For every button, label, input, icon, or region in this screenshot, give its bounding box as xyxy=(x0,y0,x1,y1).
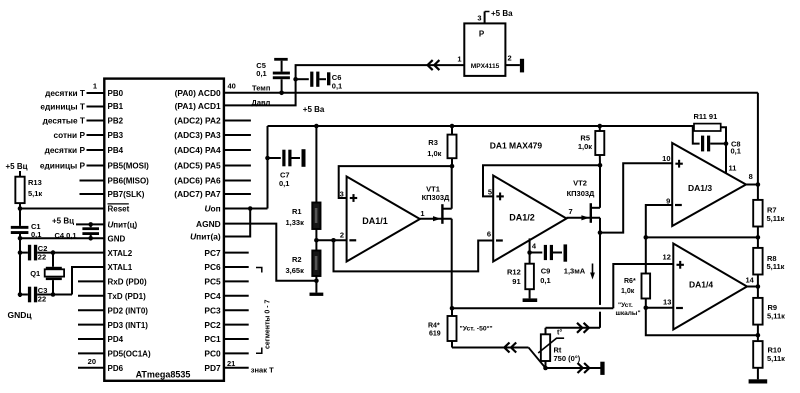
svg-text:13: 13 xyxy=(663,298,671,307)
svg-text:XTAL1: XTAL1 xyxy=(108,263,133,272)
svg-text:сотни Р: сотни Р xyxy=(54,130,86,140)
svg-text:(PA0) ACD0: (PA0) ACD0 xyxy=(175,88,221,98)
svg-text:(ADC6) PA6: (ADC6) PA6 xyxy=(174,176,221,186)
svg-text:(ADC5) PA5: (ADC5) PA5 xyxy=(174,161,221,171)
svg-text:(ADC3) PA3: (ADC3) PA3 xyxy=(174,130,221,140)
svg-text:1,33к: 1,33к xyxy=(286,218,305,227)
svg-text:21: 21 xyxy=(227,359,235,368)
svg-text:шкалы": шкалы" xyxy=(616,310,641,317)
svg-text:TxD (PD1): TxD (PD1) xyxy=(108,292,147,301)
svg-text:PC5: PC5 xyxy=(204,277,221,287)
svg-text:DA1/3: DA1/3 xyxy=(688,183,712,193)
svg-text:MPX4115: MPX4115 xyxy=(471,63,500,70)
svg-text:+5 Вц: +5 Вц xyxy=(6,162,28,171)
svg-text:1,0к: 1,0к xyxy=(621,288,635,295)
svg-text:R6*: R6* xyxy=(624,278,636,285)
svg-text:+5 Ва: +5 Ва xyxy=(303,105,325,114)
svg-text:GNDц: GNDц xyxy=(8,310,33,320)
svg-text:PC3: PC3 xyxy=(204,305,221,315)
svg-text:единицы Т: единицы Т xyxy=(40,102,85,112)
svg-text:PD2 (INT0): PD2 (INT0) xyxy=(108,306,149,315)
svg-text:0,1: 0,1 xyxy=(540,276,550,285)
svg-text:12: 12 xyxy=(663,253,671,262)
svg-text:PB6(MISO): PB6(MISO) xyxy=(108,177,150,186)
svg-text:Uоп: Uоп xyxy=(204,204,220,214)
svg-text:PC0: PC0 xyxy=(204,349,221,359)
svg-text:6: 6 xyxy=(487,229,491,238)
svg-text:PB4: PB4 xyxy=(108,146,124,155)
svg-text:0,1: 0,1 xyxy=(731,147,741,156)
svg-text:14: 14 xyxy=(745,276,754,285)
svg-text:"Уст. -50°": "Уст. -50°" xyxy=(460,325,493,333)
svg-text:ATmega8535: ATmega8535 xyxy=(136,370,191,380)
svg-text:PB2: PB2 xyxy=(108,117,124,126)
svg-text:C3: C3 xyxy=(38,286,48,295)
svg-text:R2: R2 xyxy=(292,255,302,264)
svg-text:3: 3 xyxy=(477,14,481,23)
svg-text:+5 Вц: +5 Вц xyxy=(52,217,74,226)
svg-text:P: P xyxy=(479,29,485,38)
svg-text:Uпит(а): Uпит(а) xyxy=(190,232,221,242)
svg-text:PC7: PC7 xyxy=(204,248,221,258)
svg-text:(PA1) ACD1: (PA1) ACD1 xyxy=(175,101,221,111)
svg-text:КП303Д: КП303Д xyxy=(567,189,595,198)
svg-text:40: 40 xyxy=(228,81,236,90)
svg-text:5: 5 xyxy=(488,187,492,196)
svg-text:8: 8 xyxy=(749,172,753,181)
svg-text:R13: R13 xyxy=(28,178,42,187)
svg-text:5,1к: 5,1к xyxy=(28,189,42,198)
svg-text:1,0к: 1,0к xyxy=(578,142,592,151)
svg-text:1,0к: 1,0к xyxy=(427,149,441,158)
svg-text:КП303Д: КП303Д xyxy=(422,193,450,202)
svg-text:20: 20 xyxy=(88,357,96,366)
svg-text:0,1: 0,1 xyxy=(332,82,342,91)
svg-text:VT2: VT2 xyxy=(573,179,587,188)
svg-text:PB1: PB1 xyxy=(108,102,124,111)
svg-text:11: 11 xyxy=(729,164,737,173)
svg-text:1,3мА: 1,3мА xyxy=(564,266,586,275)
svg-text:1: 1 xyxy=(420,209,424,218)
svg-text:C9: C9 xyxy=(541,267,551,276)
svg-text:PD3 (INT1): PD3 (INT1) xyxy=(108,321,149,330)
svg-text:Reset: Reset xyxy=(108,205,130,214)
svg-text:Давл: Давл xyxy=(252,98,271,107)
svg-text:22: 22 xyxy=(38,295,46,304)
svg-text:1: 1 xyxy=(457,55,461,64)
svg-text:GND: GND xyxy=(108,235,126,244)
svg-text:22: 22 xyxy=(38,253,46,262)
svg-text:DA1 MAX479: DA1 MAX479 xyxy=(490,140,543,150)
svg-text:R11 91: R11 91 xyxy=(694,112,718,121)
svg-text:5,11к: 5,11к xyxy=(767,312,785,321)
svg-text:PB3: PB3 xyxy=(108,131,124,140)
svg-text:DA1/1: DA1/1 xyxy=(362,216,388,226)
svg-text:(ADC7) PA7: (ADC7) PA7 xyxy=(174,189,221,199)
svg-text:1: 1 xyxy=(93,82,97,91)
svg-text:750 (0°): 750 (0°) xyxy=(554,354,581,363)
svg-text:единицы Р: единицы Р xyxy=(40,161,86,171)
svg-text:PC1: PC1 xyxy=(204,334,221,344)
svg-text:C4 0,1: C4 0,1 xyxy=(55,231,77,240)
svg-text:десятки Р: десятки Р xyxy=(45,145,86,155)
svg-text:Uпит(ц): Uпит(ц) xyxy=(108,221,138,230)
svg-text:PB7(SLK): PB7(SLK) xyxy=(108,190,145,199)
svg-text:R1: R1 xyxy=(292,207,302,216)
svg-text:10: 10 xyxy=(662,154,670,163)
svg-text:XTAL2: XTAL2 xyxy=(108,249,133,258)
svg-text:0,1: 0,1 xyxy=(256,69,266,78)
svg-text:PD4: PD4 xyxy=(108,335,124,344)
svg-text:десятые Т: десятые Т xyxy=(43,116,85,126)
svg-text:десятки Т: десятки Т xyxy=(45,88,85,98)
svg-text:7: 7 xyxy=(569,207,573,216)
svg-text:5,11к: 5,11к xyxy=(767,354,785,363)
svg-text:PD6: PD6 xyxy=(108,364,124,373)
svg-text:+5 Ва: +5 Ва xyxy=(491,9,513,18)
svg-text:DA1/2: DA1/2 xyxy=(509,213,535,223)
svg-text:"Уст.: "Уст. xyxy=(618,302,633,309)
svg-text:Q1: Q1 xyxy=(30,269,40,278)
svg-text:R3: R3 xyxy=(428,138,438,147)
svg-text:2: 2 xyxy=(340,231,344,240)
svg-text:PC6: PC6 xyxy=(204,262,221,272)
svg-text:619: 619 xyxy=(429,330,441,337)
svg-text:t°: t° xyxy=(557,329,562,337)
svg-text:DA1/4: DA1/4 xyxy=(689,279,713,289)
svg-text:(ADC4) PA4: (ADC4) PA4 xyxy=(174,145,221,155)
svg-text:0,1: 0,1 xyxy=(279,179,289,188)
svg-text:PC2: PC2 xyxy=(204,320,221,330)
svg-text:PB0: PB0 xyxy=(108,89,124,98)
svg-text:R4*: R4* xyxy=(428,323,440,330)
svg-text:2: 2 xyxy=(508,53,512,62)
svg-text:R12: R12 xyxy=(507,268,521,277)
svg-text:PD5(OC1A): PD5(OC1A) xyxy=(108,350,151,359)
svg-text:RxD (PD0): RxD (PD0) xyxy=(108,278,147,287)
svg-text:PC4: PC4 xyxy=(204,291,221,301)
svg-text:AGND: AGND xyxy=(196,219,221,229)
svg-text:сегменты 0 - 7: сегменты 0 - 7 xyxy=(265,300,272,349)
svg-text:PB5(MOSI): PB5(MOSI) xyxy=(108,162,150,171)
svg-text:5,11к: 5,11к xyxy=(767,262,785,271)
svg-text:знак Т: знак Т xyxy=(251,365,274,374)
svg-text:91: 91 xyxy=(512,277,520,286)
svg-text:PD7: PD7 xyxy=(204,363,221,373)
svg-text:(ADC2) PA2: (ADC2) PA2 xyxy=(174,116,221,126)
svg-text:5,11к: 5,11к xyxy=(767,214,785,223)
svg-text:Темп: Темп xyxy=(252,83,270,92)
svg-text:C2: C2 xyxy=(38,244,48,253)
svg-text:3,65к: 3,65к xyxy=(286,266,305,275)
